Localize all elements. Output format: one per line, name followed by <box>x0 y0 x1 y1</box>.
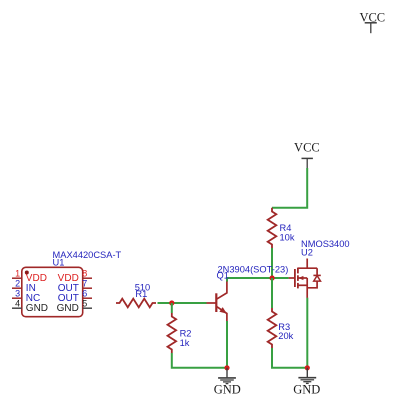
wire node to U2 gate <box>272 277 289 279</box>
junction node (R1/R2/Q1 base) <box>169 300 174 305</box>
svg-text:1k: 1k <box>180 338 190 348</box>
wire node to Q1 collector <box>227 278 272 282</box>
channel segment middle <box>297 275 299 281</box>
base bar <box>215 293 217 312</box>
resistor R4 <box>268 208 277 248</box>
svg-text:10k: 10k <box>280 233 295 243</box>
wire R4 bottom to node <box>271 248 273 278</box>
svg-text:7: 7 <box>82 278 87 288</box>
wire R2 bottom to GND rail <box>172 353 227 368</box>
svg-text:VCC: VCC <box>294 141 320 155</box>
ground symbol GND (left) <box>214 368 241 397</box>
channel segment bottom <box>297 283 299 289</box>
pin 4 stub <box>12 307 22 309</box>
svg-text:2N3904(SOT-23): 2N3904(SOT-23) <box>218 265 289 275</box>
wire U2 source down to GND node <box>306 298 308 368</box>
pin 1 marker dot <box>25 271 29 275</box>
ground symbol GND (right) <box>293 368 320 397</box>
base lead <box>207 302 217 304</box>
svg-text:6: 6 <box>82 288 87 298</box>
body connect line with arrow <box>298 277 307 279</box>
transistor Q1 2N3904 <box>207 282 227 322</box>
pin 5 stub <box>83 307 92 309</box>
MOSFET U2 NMOS3400 <box>289 259 321 298</box>
power flag VCC (feeding R4) <box>294 141 320 169</box>
svg-text:2: 2 <box>15 278 20 288</box>
svg-text:3: 3 <box>15 288 20 298</box>
body diode top lead <box>316 268 318 275</box>
pin 8 stub <box>83 277 92 279</box>
channel segment top <box>297 268 299 274</box>
svg-text:U2: U2 <box>301 248 313 258</box>
pin 1 stub <box>12 277 22 279</box>
body diode cathode bar <box>313 274 320 276</box>
emitter lead <box>216 306 227 321</box>
junction node (R4/Q1/R3/U2 gate) <box>270 275 275 280</box>
svg-text:MAX4420CSA-T: MAX4420CSA-T <box>53 250 122 260</box>
pin 2 stub <box>12 287 22 289</box>
drain pin up <box>306 259 308 269</box>
svg-text:GND: GND <box>293 382 320 396</box>
IC body <box>22 267 83 316</box>
pin 7 stub <box>83 287 92 289</box>
svg-text:R1: R1 <box>135 289 147 299</box>
wire R3 bottom to GND rail <box>272 348 307 368</box>
gate bar <box>294 269 296 287</box>
pin 6 stub <box>83 297 92 299</box>
wire node to R3 top <box>271 278 273 308</box>
wire Q1 emitter to GND node <box>226 321 228 368</box>
resistor R1 <box>116 299 156 308</box>
svg-text:NMOS3400: NMOS3400 <box>301 239 350 249</box>
pin 3 stub <box>12 297 22 299</box>
body diode triangle <box>314 276 321 282</box>
resistor R3 <box>268 308 277 348</box>
svg-text:GND: GND <box>26 303 48 314</box>
resistor R2 <box>168 313 177 353</box>
svg-text:8: 8 <box>82 268 87 278</box>
IC U1 MAX4420CSA-T <box>22 267 83 316</box>
svg-text:20k: 20k <box>278 331 293 341</box>
drain connect line <box>298 267 317 269</box>
gate lead <box>289 277 295 279</box>
source connect line <box>298 284 307 286</box>
svg-text:5: 5 <box>82 298 87 308</box>
wire VCC to R4 top <box>272 168 307 208</box>
emitter arrow <box>219 307 226 314</box>
junction GND node right <box>305 365 310 370</box>
junction GND node left <box>224 365 229 370</box>
svg-text:4: 4 <box>15 298 20 308</box>
wire node to R2 top <box>171 303 173 313</box>
svg-text:GND: GND <box>57 303 79 314</box>
collector lead <box>216 282 227 300</box>
svg-text:1: 1 <box>15 268 20 278</box>
wire R1 to Q1 base <box>158 302 207 304</box>
source pin down <box>306 278 308 298</box>
body diode bottom lead <box>307 281 317 288</box>
power flag VCC (top right, floating) <box>359 10 385 33</box>
svg-text:GND: GND <box>214 382 241 396</box>
